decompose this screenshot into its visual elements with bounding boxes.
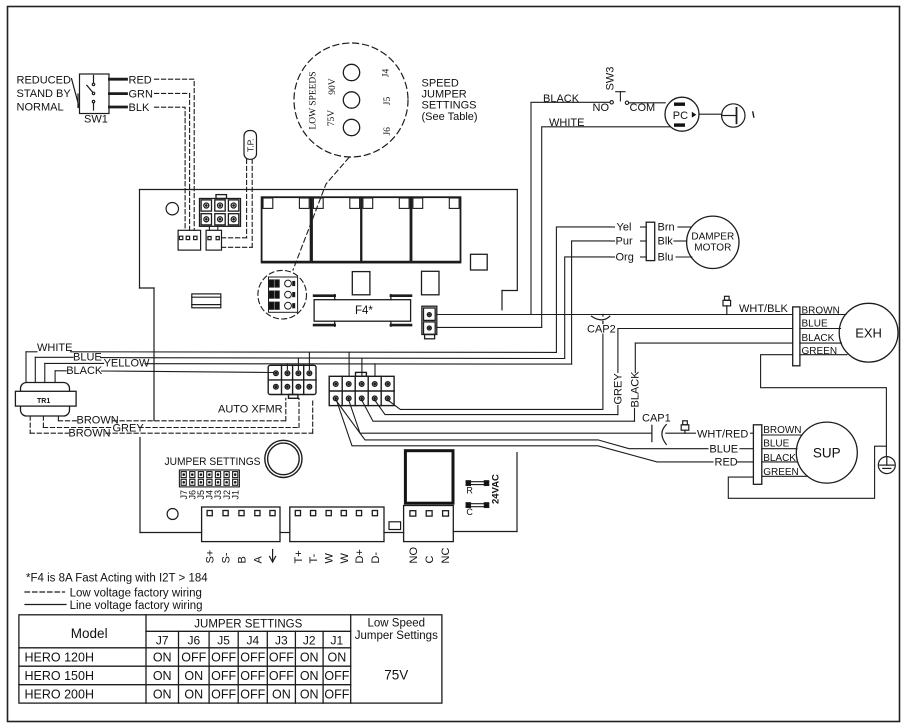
connector 3-pin <box>178 230 201 250</box>
relay K at x=361.5 <box>362 197 411 262</box>
wire <box>762 461 797 463</box>
svg-text:Low voltage factory wiring: Low voltage factory wiring <box>70 587 202 599</box>
svg-text:J4: J4 <box>246 633 259 647</box>
thermal cutoff (supply) <box>681 421 689 433</box>
relay K at x=261.6 <box>262 197 311 262</box>
svg-text:T+: T+ <box>293 550 305 563</box>
svg-text:Low Speed: Low Speed <box>368 618 426 630</box>
dashed wire BLK <box>155 107 186 230</box>
svg-text:J5: J5 <box>383 97 393 106</box>
transformer TR1 <box>15 383 76 417</box>
wire RED diag <box>337 402 713 462</box>
wire CAP1 to WHT/RED <box>666 432 754 434</box>
svg-text:S+: S+ <box>205 550 217 564</box>
jumper settings table <box>19 615 442 703</box>
connector AUTO XFMR 8-pin <box>268 365 316 398</box>
svg-text:Line voltage factory wiring: Line voltage factory wiring <box>70 600 203 612</box>
connector bar damper <box>646 222 655 260</box>
wire <box>800 314 846 316</box>
svg-text:REDUCED: REDUCED <box>17 75 71 87</box>
svg-text:C: C <box>424 556 436 564</box>
wire <box>674 240 687 242</box>
svg-text:D+: D+ <box>354 549 366 563</box>
wire RED to bar <box>738 461 754 463</box>
capacitor C1 (CAP1) <box>652 425 666 445</box>
svg-text:CAP2: CAP2 <box>587 324 616 336</box>
wire pin5 to CAP2 <box>388 334 603 409</box>
svg-text:RED: RED <box>715 457 738 469</box>
svg-text:C: C <box>466 507 473 517</box>
svg-text:Org: Org <box>616 252 634 264</box>
svg-text:TR1: TR1 <box>37 398 50 405</box>
capacitor C <box>466 503 489 508</box>
svg-text:DAMPER: DAMPER <box>691 232 734 243</box>
svg-text:SW1: SW1 <box>84 114 108 126</box>
wire Yel <box>556 227 646 353</box>
svg-text:WHT/BLK: WHT/BLK <box>739 303 789 315</box>
wire 6-pin to 2-pin <box>209 226 217 230</box>
svg-text:D-: D- <box>370 552 382 564</box>
TR1 secondary dashed leads <box>30 416 58 433</box>
svg-text:GRN: GRN <box>129 88 154 100</box>
svg-text:OFF: OFF <box>269 669 294 683</box>
wire BLUE to bar <box>740 448 753 450</box>
resistor R <box>466 481 489 486</box>
dashed wire BROWN <box>58 398 285 421</box>
svg-text:EXH: EXH <box>855 325 882 340</box>
wire WHITE mains <box>542 127 671 328</box>
svg-text:NO: NO <box>593 102 610 114</box>
connector bar EXH <box>793 307 800 366</box>
pad component <box>471 254 488 270</box>
thermal cutoff (exhaust) <box>723 296 731 314</box>
svg-text:JUMPER SETTINGS: JUMPER SETTINGS <box>194 619 302 631</box>
svg-text:(See Table): (See Table) <box>422 111 478 123</box>
resistor block component <box>192 294 221 308</box>
svg-text:ON: ON <box>184 669 203 683</box>
svg-text:ON: ON <box>300 669 319 683</box>
svg-text:75V: 75V <box>327 110 337 127</box>
svg-text:RED: RED <box>129 75 152 87</box>
svg-text:ON: ON <box>184 687 203 701</box>
svg-text:BLUE: BLUE <box>709 443 738 455</box>
svg-text:T.P.: T.P. <box>246 138 256 152</box>
relay K at x=411.5 <box>412 197 461 262</box>
wire pin2 to CAP1 <box>349 400 652 433</box>
svg-text:BLUE: BLUE <box>802 318 828 329</box>
fuse F4 <box>314 295 411 327</box>
capacitor C2 (CAP2) <box>592 314 610 323</box>
control board outline <box>140 190 518 533</box>
wire PC to plug <box>699 113 722 115</box>
svg-text:SW3: SW3 <box>605 67 617 91</box>
svg-text:BLACK: BLACK <box>66 365 103 377</box>
svg-text:WHITE: WHITE <box>37 342 72 354</box>
svg-text:T-: T- <box>308 553 320 563</box>
wire WHITE <box>26 352 556 377</box>
jumper block J7-J1 <box>179 470 239 487</box>
svg-text:HERO 200H: HERO 200H <box>25 687 94 701</box>
wire BLACK vertical <box>634 343 637 421</box>
wire pin4 to GREY <box>375 400 618 415</box>
dashed wire GREY <box>43 398 299 427</box>
svg-text:SUP: SUP <box>813 446 841 461</box>
wire BLACK mains <box>531 102 610 314</box>
svg-text:J1: J1 <box>230 490 240 500</box>
svg-text:BLACK: BLACK <box>543 93 580 105</box>
svg-text:Blu: Blu <box>658 252 674 264</box>
dashed wire RED <box>155 79 195 230</box>
svg-text:S-: S- <box>221 552 233 563</box>
svg-text:PC: PC <box>673 110 688 122</box>
wire <box>678 226 692 228</box>
svg-text:B: B <box>237 556 249 563</box>
svg-text:OFF: OFF <box>211 687 236 701</box>
svg-text:HERO 120H: HERO 120H <box>25 651 94 665</box>
svg-text:ON: ON <box>300 651 319 665</box>
legend line voltage <box>25 604 66 606</box>
jumper settings circle <box>265 440 302 477</box>
svg-text:WHT/RED: WHT/RED <box>697 428 748 440</box>
svg-text:GREY: GREY <box>613 373 625 405</box>
pad component <box>352 272 370 295</box>
wire <box>762 434 802 436</box>
wire <box>762 475 808 477</box>
svg-text:JUMPER SETTINGS: JUMPER SETTINGS <box>165 456 261 468</box>
SW1 pin stubs <box>109 79 126 107</box>
legend low voltage <box>25 591 65 593</box>
relay terminal block <box>404 506 454 542</box>
motor EXH <box>839 303 898 362</box>
wire pin3 to BLACK lead <box>362 400 635 421</box>
wire EXH blue <box>619 328 793 330</box>
svg-text:Yel: Yel <box>617 222 632 234</box>
svg-text:OFF: OFF <box>240 651 265 665</box>
svg-text:YELLOW: YELLOW <box>104 357 150 369</box>
connector P1 6-pin <box>200 195 241 227</box>
svg-text:ON: ON <box>328 651 347 665</box>
svg-text:Pur: Pur <box>616 236 633 248</box>
svg-text:OFF: OFF <box>324 687 349 701</box>
svg-text:ON: ON <box>153 669 172 683</box>
dashed wire GRN <box>155 93 190 230</box>
speed jumper detail circle <box>294 43 408 157</box>
svg-text:CAP1: CAP1 <box>642 412 671 424</box>
svg-text:ON: ON <box>272 687 291 701</box>
relay K5 <box>405 451 453 504</box>
terminal strip T <box>290 507 384 542</box>
test point T.P. <box>244 131 257 160</box>
svg-text:BLACK: BLACK <box>630 371 642 408</box>
connector motor harness 10-pin <box>329 372 394 405</box>
TR1 primary leads <box>26 352 55 383</box>
svg-text:J1: J1 <box>331 633 344 647</box>
jumper post J4 <box>343 64 359 80</box>
wire Pur <box>572 241 647 364</box>
wire BLACK secondary <box>55 371 273 373</box>
svg-text:Blk: Blk <box>658 236 674 248</box>
svg-text:BLK: BLK <box>129 102 150 114</box>
svg-text:BROWN: BROWN <box>763 425 801 436</box>
power cord receptacle PC <box>665 97 699 131</box>
svg-text:Model: Model <box>71 626 108 641</box>
wall plug symbol <box>722 104 754 127</box>
svg-text:MOTOR: MOTOR <box>694 243 731 254</box>
svg-text:BLUE: BLUE <box>763 439 789 450</box>
dashed leader line <box>293 158 349 271</box>
svg-text:BROWN: BROWN <box>68 427 110 439</box>
svg-text:OFF: OFF <box>269 651 294 665</box>
svg-text:A: A <box>252 556 264 564</box>
svg-text:24VAC: 24VAC <box>491 474 502 504</box>
svg-text:90V: 90V <box>328 78 338 95</box>
connector 2-pin <box>206 230 221 250</box>
svg-text:J6: J6 <box>383 127 393 136</box>
damper motor <box>687 216 739 268</box>
svg-text:OFF: OFF <box>324 669 349 683</box>
wire <box>800 342 842 344</box>
svg-text:OFF: OFF <box>211 651 236 665</box>
svg-text:NO: NO <box>408 547 420 564</box>
svg-text:BLUE: BLUE <box>73 351 102 363</box>
LED component <box>389 522 401 530</box>
wire <box>762 448 797 450</box>
svg-text:F4*: F4* <box>355 305 373 317</box>
wire SUP ground loop <box>728 446 886 498</box>
mounting hole <box>166 203 178 215</box>
svg-text:AUTO XFMR: AUTO XFMR <box>218 404 283 416</box>
svg-text:J6: J6 <box>187 633 200 647</box>
svg-text:J2: J2 <box>303 633 316 647</box>
svg-text:R: R <box>466 486 473 496</box>
svg-text:OFF: OFF <box>211 669 236 683</box>
connector 2-pin line <box>422 306 437 339</box>
svg-text:HERO 150H: HERO 150H <box>25 669 94 683</box>
relay K at x=312.0 <box>312 197 361 262</box>
connector bar SUP <box>753 425 761 485</box>
wire <box>800 354 847 356</box>
mounting hole <box>167 509 178 520</box>
svg-text:Jumper Settings: Jumper Settings <box>355 630 438 642</box>
jumper post J5 <box>343 92 359 108</box>
svg-text:ON: ON <box>300 687 319 701</box>
wire GREY vertical <box>617 329 619 415</box>
wire YELLOW <box>45 363 572 376</box>
svg-text:Brn: Brn <box>658 222 675 234</box>
svg-text:LOW SPEEDS: LOW SPEEDS <box>309 71 319 129</box>
svg-text:NC: NC <box>440 548 452 564</box>
svg-text:J7: J7 <box>156 633 169 647</box>
T.P. dashed leads <box>222 159 253 247</box>
wire EXH black <box>635 342 792 344</box>
svg-text:ON: ON <box>153 651 172 665</box>
svg-text:COM: COM <box>630 102 656 114</box>
svg-text:J4: J4 <box>382 69 392 78</box>
svg-text:NORMAL: NORMAL <box>17 102 64 114</box>
wire Org <box>565 257 647 359</box>
svg-text:OFF: OFF <box>181 651 206 665</box>
svg-text:J3: J3 <box>275 633 288 647</box>
svg-text:W: W <box>324 553 336 564</box>
board speed jumpers detail <box>258 270 307 319</box>
svg-text:GREEN: GREEN <box>802 346 838 357</box>
wire pin1 to BLUE diag <box>336 400 708 449</box>
svg-text:SETTINGS: SETTINGS <box>422 100 477 112</box>
svg-text:STAND BY: STAND BY <box>17 88 72 100</box>
jumper post J6 <box>343 119 359 135</box>
svg-text:OFF: OFF <box>240 669 265 683</box>
wire EXH green/ground <box>761 355 887 457</box>
wire <box>800 328 841 330</box>
terminal strip S <box>202 507 280 542</box>
wire <box>676 256 692 258</box>
motor SUP <box>796 422 857 483</box>
wire BLUE <box>35 357 564 376</box>
svg-text:75V: 75V <box>384 668 408 683</box>
svg-text:W: W <box>339 553 351 564</box>
svg-text:OFF: OFF <box>240 687 265 701</box>
svg-text:J5: J5 <box>217 633 230 647</box>
switch SW3 <box>610 92 665 105</box>
switch SW1 <box>72 74 110 114</box>
dashed wire BROWN <box>30 398 313 433</box>
svg-text:ON: ON <box>153 687 172 701</box>
earth ground <box>878 457 895 474</box>
ground arrow label <box>270 550 276 563</box>
wire WHT/BLK line <box>437 315 793 328</box>
pad component <box>422 271 440 295</box>
svg-text:*F4 is 8A Fast Acting with I2T: *F4 is 8A Fast Acting with I2T > 184 <box>26 573 208 585</box>
